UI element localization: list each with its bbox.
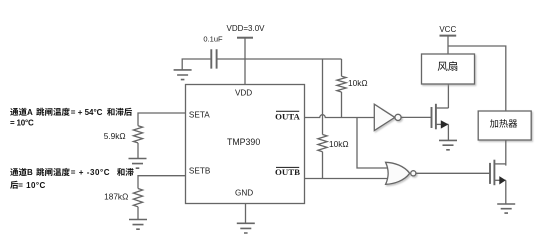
resistor R4 body — [318, 135, 327, 152]
svg-text:10kΩ: 10kΩ — [329, 139, 349, 149]
resistor R2 bottom lead — [137, 207, 139, 220]
wire VDD net: capacitor to pull-up resistors — [218, 58, 342, 60]
resistor R3 bottom lead to OUTA — [341, 92, 343, 118]
block load: heater box — [478, 111, 531, 140]
resistor R3 body — [337, 76, 346, 92]
wire VDD rail to chip VDD pin — [244, 38, 246, 85]
svg-text:TMP390: TMP390 — [227, 137, 260, 147]
svg-text:SETB: SETB — [189, 166, 211, 175]
annotation channel B trip temperature (Chinese) line 1 — [10, 168, 27, 176]
resistor R1 5.9kOhm body — [133, 126, 142, 143]
ground (Q2 source) — [497, 204, 515, 213]
wire Q1 source down to ground — [447, 124, 449, 140]
svg-text:10kΩ: 10kΩ — [348, 78, 368, 88]
svg-text:VCC: VCC — [439, 25, 456, 34]
svg-text:0.1uF: 0.1uF — [203, 34, 223, 43]
power rail VCC T-bar — [440, 35, 457, 37]
wire GND pin to ground — [245, 204, 247, 224]
svg-text:5.9kΩ: 5.9kΩ — [104, 131, 126, 141]
wire NOR output to Q2 gate — [416, 172, 490, 174]
annotation channel B line 2 — [10, 181, 18, 189]
wire OUTB to NOR gate input — [305, 178, 389, 180]
resistor R3 10kOhm pull-up OUTA : top lead — [341, 59, 343, 76]
resistor R4 bottom lead to OUTB — [322, 152, 324, 179]
svg-text:VDD: VDD — [235, 88, 252, 97]
heater box label (Chinese: heater) — [490, 119, 517, 128]
wire Q1 drain up to fan — [447, 84, 449, 108]
transistor Q2 (NMOS, heater driver) — [489, 163, 491, 184]
op chip U1 TMP390 body — [186, 85, 305, 204]
ground (decoupling capacitor) — [174, 70, 192, 80]
wire capacitor to ground — [182, 59, 210, 70]
svg-text:= + -30°C: = + -30°C — [71, 168, 110, 177]
svg-text:VDD=3.0V: VDD=3.0V — [226, 24, 265, 33]
NOR gate U3 body — [386, 162, 416, 184]
svg-text:187kΩ: 187kΩ — [104, 191, 128, 201]
ground (R2) — [129, 220, 147, 230]
svg-text:SETA: SETA — [189, 110, 210, 119]
svg-text:OUTB: OUTB — [275, 167, 300, 177]
resistor R1 bottom lead — [137, 143, 139, 159]
wire Q2 source down to ground — [505, 180, 507, 204]
wire VCC branch to heater box — [448, 46, 506, 111]
svg-text:= 10°C: = 10°C — [10, 119, 34, 128]
ground (R1) — [129, 159, 147, 169]
wire SETA to R1 — [138, 113, 186, 126]
inverter U2 output bubble — [395, 114, 401, 120]
annotation channel A trip temperature (Chinese) line 1 — [10, 108, 27, 116]
inverter U2 body — [374, 104, 401, 130]
NOR gate U3 output bubble — [411, 171, 416, 176]
wire OUTA to inverter input (hops over R4 lead) — [305, 115, 375, 118]
svg-text:B: B — [27, 168, 33, 177]
wire OUTA branch down to NOR gate input — [357, 118, 388, 169]
svg-text:GND: GND — [235, 188, 253, 197]
wire VCC to fan box — [447, 36, 449, 54]
wire heater bottom to Q2 drain — [505, 140, 507, 166]
power rail VDD T-bar — [237, 37, 253, 39]
capacitor C1 plates — [211, 49, 216, 68]
resistor R2 187kOhm body — [133, 189, 142, 207]
svg-text:A: A — [27, 108, 33, 117]
resistor R4 10kOhm pull-up OUTB : top lead — [322, 59, 324, 135]
fan box label (Chinese: fan) — [438, 61, 458, 71]
block load: fan box — [422, 54, 475, 84]
ground (chip GND) — [237, 223, 255, 233]
svg-text:= 10°C: = 10°C — [18, 181, 45, 190]
wire SETB to R2 — [138, 176, 186, 189]
svg-text:= + 54°C: = + 54°C — [71, 108, 103, 117]
wire inverter output to Q1 gate — [401, 116, 431, 118]
svg-text:OUTA: OUTA — [275, 111, 300, 121]
ground (Q1 source) — [439, 140, 457, 149]
transistor Q1 (NMOS, fan driver) — [431, 107, 433, 128]
